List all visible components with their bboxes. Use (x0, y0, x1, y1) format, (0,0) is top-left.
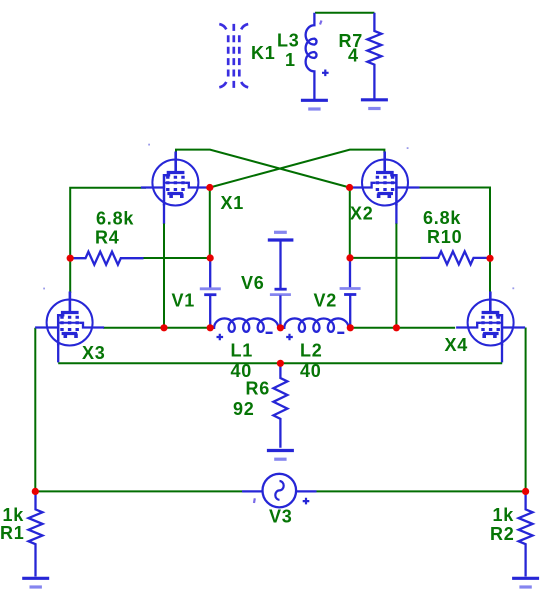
L2 minus marker (337, 332, 344, 334)
ground for R2 (512, 578, 539, 587)
wire X2 grid node down to V2 (349, 188, 351, 258)
wire left drop x35 (34, 328, 36, 492)
resistor R1 (29, 491, 43, 576)
resistor R4 (70, 252, 143, 265)
junction L1-L2 center node (277, 324, 284, 331)
wire cathode rail X3 to L1 (103, 327, 210, 329)
tube X1 (141, 152, 210, 206)
L1 minus marker (266, 332, 273, 334)
L3 plus marker (322, 70, 329, 77)
L2 plus marker (286, 334, 293, 341)
L3 polarity tick (320, 21, 322, 25)
wire cathode rail L2 to X4 (350, 327, 455, 329)
wire V2 node to R10 (350, 257, 421, 259)
tube X1 cathode stub (163, 204, 165, 224)
svg-text:R4: R4 (95, 228, 120, 248)
svg-text:R1: R1 (0, 523, 25, 543)
svg-text:R6: R6 (246, 379, 271, 399)
wire bottom rail left (35, 490, 242, 492)
V3 plus marker (303, 498, 310, 505)
resistor R10 (421, 251, 491, 264)
junction bottom-right node (522, 488, 529, 495)
svg-text:40: 40 (300, 361, 322, 381)
wire X2 grid-right to right rail down to X4 plate (417, 188, 490, 294)
junction L2 right node (347, 324, 354, 331)
junction R10 right node (486, 255, 493, 262)
svg-text:V2: V2 (314, 291, 338, 311)
svg-text:4: 4 (348, 46, 359, 66)
svg-text:X1: X1 (221, 193, 245, 213)
svg-text:K1: K1 (251, 43, 276, 63)
V3 left tick (253, 498, 256, 503)
svg-text:6.8k: 6.8k (423, 208, 461, 228)
tube X3 cathode stub (57, 344, 59, 362)
wire X1 grid node down to V1 (209, 188, 211, 259)
ground for R1 (22, 578, 49, 587)
tube X3 (35, 292, 104, 346)
junction X1 grid node (206, 184, 213, 191)
wire bottom rail right (317, 490, 526, 492)
svg-text:1: 1 (285, 50, 296, 70)
svg-text:X4: X4 (445, 335, 469, 355)
svg-text:L2: L2 (300, 341, 323, 361)
wire X1 plate to X2 grid (cross) (176, 150, 350, 188)
wire right drop x525 (525, 328, 527, 492)
junction R4 left node (67, 255, 74, 262)
svg-text:R10: R10 (427, 227, 462, 247)
grid dots (decorative) (43, 144, 514, 290)
wire X1 grid-left to left rail down to X3 plate (70, 188, 146, 293)
wire X2 cathode drop (395, 224, 397, 328)
ground for R7 (361, 100, 388, 109)
junction bottom-left node (32, 488, 39, 495)
junction X2 cathode node (393, 324, 400, 331)
wire top L3-R7 (315, 12, 374, 14)
inductor L1 (210, 318, 280, 331)
svg-text:L3: L3 (277, 31, 300, 51)
junction R6 top node (277, 360, 284, 367)
wire bottom cathode rail y363 (58, 362, 502, 364)
resistor R2 (519, 491, 533, 576)
battery V2 (340, 258, 361, 328)
wire X1 cathode drop (163, 224, 165, 328)
svg-text:1k: 1k (3, 505, 25, 525)
coupling K1 (219, 24, 248, 88)
junction L1 left node (207, 324, 214, 331)
resistor R6 (273, 363, 287, 447)
inductor L3 (306, 13, 317, 100)
svg-text:V1: V1 (172, 291, 196, 311)
resistor R7 (367, 13, 381, 99)
junction V1 top node (207, 254, 214, 261)
tube X2 cathode stub (395, 204, 397, 224)
svg-text:X2: X2 (350, 204, 374, 224)
tube X2 (mirrored) (351, 152, 420, 206)
L1 plus marker (217, 334, 224, 341)
svg-text:R2: R2 (490, 524, 515, 544)
ground for L3 (301, 100, 328, 109)
tube X4 (mirrored) (456, 292, 525, 346)
inductor L2 (280, 318, 350, 331)
ground for R6 (267, 451, 294, 460)
svg-text:L1: L1 (231, 341, 254, 361)
tube X4 cathode stub (501, 344, 503, 362)
junction X2 grid node (346, 184, 353, 191)
junction V2 top node (346, 254, 353, 261)
svg-text:X3: X3 (82, 343, 106, 363)
battery V1 (200, 258, 221, 328)
svg-text:92: 92 (233, 399, 255, 419)
battery V6 with inverted ground on top (268, 232, 294, 327)
svg-text:6.8k: 6.8k (96, 209, 134, 229)
svg-text:V6: V6 (241, 273, 265, 293)
wire R4 right to V1 node (144, 257, 211, 259)
svg-text:V3: V3 (269, 507, 293, 527)
wire X2 plate to X1 grid (cross) (210, 150, 385, 188)
junction X1 cathode node (160, 324, 167, 331)
source V3 (242, 474, 317, 508)
svg-text:1k: 1k (493, 505, 515, 525)
